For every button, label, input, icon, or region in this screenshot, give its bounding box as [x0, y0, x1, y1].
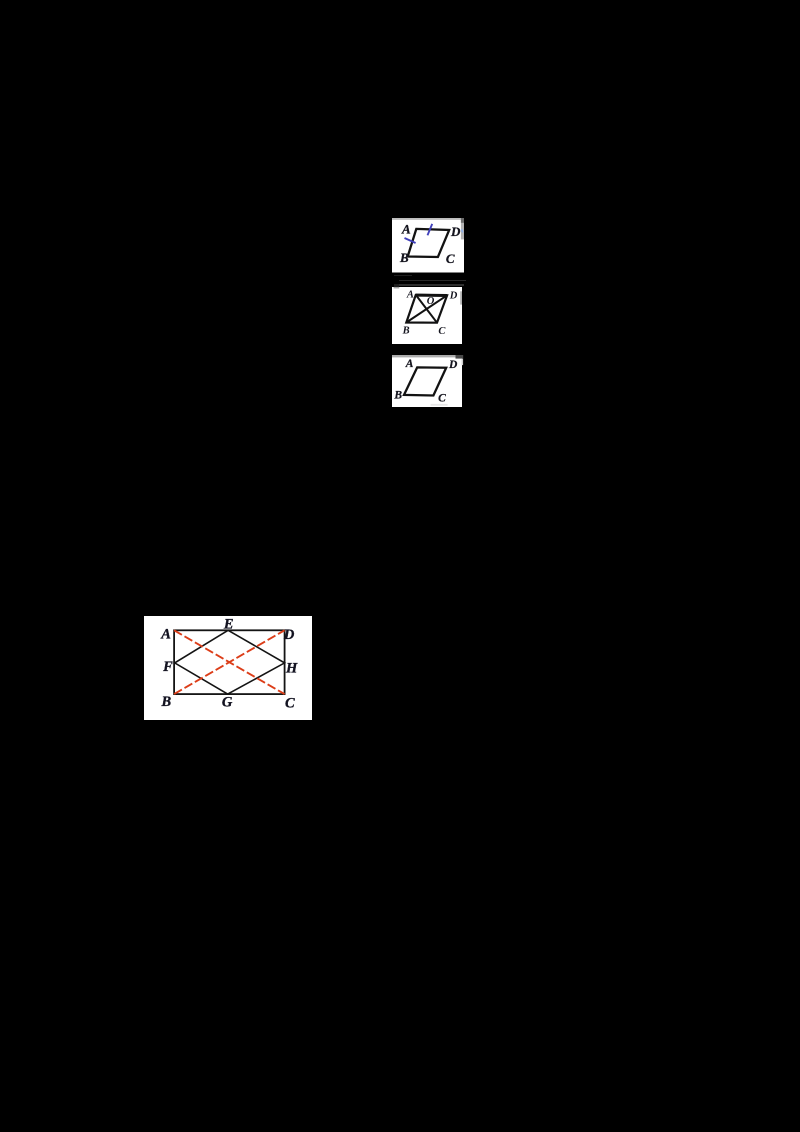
svg-text:B: B	[393, 390, 402, 402]
svg-text:O: O	[427, 296, 435, 307]
svg-text:B: B	[160, 693, 171, 709]
svg-text:C: C	[438, 393, 446, 405]
svg-text:A: A	[401, 221, 411, 236]
svg-text:C: C	[446, 251, 455, 266]
svg-text:A: A	[406, 289, 414, 300]
svg-text:B: B	[402, 326, 410, 337]
svg-text:G: G	[222, 694, 233, 710]
svg-text:C: C	[285, 695, 295, 711]
svg-text:B: B	[399, 250, 409, 265]
svg-text:H: H	[285, 660, 298, 676]
svg-text:D: D	[449, 291, 458, 302]
svg-text:C: C	[438, 326, 446, 337]
svg-text:E: E	[223, 616, 234, 632]
svg-text:D: D	[448, 359, 458, 371]
svg-text:A: A	[160, 626, 171, 642]
svg-text:F: F	[162, 658, 173, 674]
svg-text:D: D	[450, 224, 461, 239]
svg-text:A: A	[405, 359, 414, 371]
svg-text:D: D	[283, 627, 295, 643]
